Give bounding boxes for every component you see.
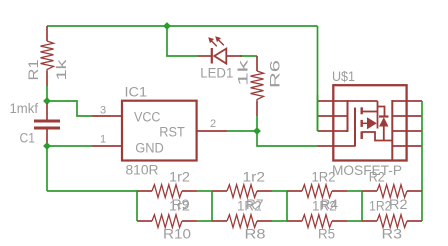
svg-text:R6: R6 bbox=[268, 60, 283, 88]
wire cell3-cell4 vertical bbox=[361, 191, 363, 221]
svg-text:U$1: U$1 bbox=[332, 69, 355, 84]
resistor R5 bbox=[287, 215, 347, 228]
U$1 channel segments bbox=[361, 107, 363, 114]
resistor R6 bbox=[251, 56, 264, 116]
wire R6 bottom to node C bbox=[256, 116, 258, 131]
resistor R2 bbox=[362, 185, 422, 198]
svg-text:MOSFET-P: MOSFET-P bbox=[332, 163, 402, 178]
svg-text:810R: 810R bbox=[126, 163, 159, 178]
U$1 substrate line with arrow bbox=[362, 122, 368, 124]
LED LED1 bbox=[198, 36, 243, 63]
svg-text:1r2: 1r2 bbox=[169, 169, 190, 184]
svg-text:1: 1 bbox=[100, 134, 106, 146]
svg-text:GND: GND bbox=[135, 140, 164, 155]
wire cell1-cell2 vertical bbox=[211, 191, 213, 221]
svg-text:R9: R9 bbox=[172, 197, 190, 212]
wire node B to IC1 pin 1 bbox=[47, 145, 92, 147]
U$1 right pin D2 bbox=[392, 115, 422, 117]
MOSFET U$1 bbox=[318, 85, 423, 160]
pin 1 of IC1 bbox=[92, 145, 122, 147]
U$1 gate bar bbox=[354, 108, 356, 147]
U$1 left pin row 1 (source, extends to inner vertical) bbox=[318, 100, 378, 102]
U$1 left pin S3 bbox=[318, 130, 348, 132]
svg-text:1k: 1k bbox=[54, 59, 69, 80]
wire node C to MOSFET gate bbox=[257, 131, 318, 146]
svg-text:R1: R1 bbox=[26, 60, 41, 81]
resistor R1 bbox=[41, 26, 54, 86]
wire gap top row 1 bbox=[197, 190, 212, 192]
wire gap bottom row 3 bbox=[347, 220, 362, 222]
svg-text:VCC: VCC bbox=[134, 110, 161, 125]
U$1 source contact stub bbox=[362, 111, 378, 113]
wire gap bottom row 2 bbox=[272, 220, 287, 222]
svg-text:2: 2 bbox=[210, 118, 216, 130]
svg-text:3: 3 bbox=[100, 105, 106, 117]
junction node C (RST net) bbox=[253, 127, 261, 135]
wire LED cathode to R6 top bbox=[240, 55, 257, 57]
U$1 right pin D1 bbox=[392, 100, 422, 102]
U$1 left tie bar bbox=[347, 100, 349, 132]
junction node A (VCC node) bbox=[43, 97, 51, 105]
wire LED drop from top rail bbox=[167, 26, 198, 56]
pin 2 of IC1 bbox=[197, 130, 227, 132]
wire left drop to bottom rail bbox=[46, 146, 48, 191]
U$1 body diode bottom lead bbox=[383, 127, 385, 141]
LED arrow 2 bbox=[218, 39, 224, 45]
svg-text:1R2: 1R2 bbox=[312, 169, 336, 184]
U$1 left pin S2 bbox=[318, 115, 348, 117]
wire top rail bbox=[47, 25, 318, 27]
capacitor C1 bbox=[34, 103, 60, 143]
wire R1 to node A bbox=[46, 86, 48, 101]
wire gap top row 2 bbox=[272, 190, 287, 192]
resistor R4 bbox=[287, 185, 347, 198]
svg-text:1mkf: 1mkf bbox=[10, 101, 39, 116]
svg-text:R2: R2 bbox=[369, 169, 385, 184]
U$1 body diode cathode bar bbox=[379, 115, 389, 117]
wire top-right vertical drop to U$1 left pins bbox=[317, 26, 319, 131]
wire IC1 pin2 to node C bbox=[227, 130, 257, 132]
U$1 drain bottom path bbox=[362, 132, 393, 141]
svg-text:1k: 1k bbox=[235, 60, 250, 86]
svg-text:R8: R8 bbox=[245, 226, 266, 241]
LED arrow 1 bbox=[211, 40, 217, 46]
U$1 box bbox=[333, 85, 406, 160]
wire cell1 left vertical bbox=[136, 191, 138, 221]
resistor R10 bbox=[137, 215, 197, 228]
svg-text:R2: R2 bbox=[389, 197, 408, 212]
wire gap top row 3 bbox=[347, 190, 362, 192]
wire node A to IC1 pin 3 bbox=[47, 101, 92, 116]
pin 3 of IC1 bbox=[92, 115, 122, 117]
svg-text:R7: R7 bbox=[246, 197, 264, 212]
U$1 right pin D3 bbox=[392, 130, 422, 132]
U$1 right pin D4 bbox=[392, 145, 422, 147]
resistor R7 bbox=[212, 185, 272, 198]
svg-text:RST: RST bbox=[159, 124, 185, 139]
svg-text:R10: R10 bbox=[163, 226, 191, 241]
U$1 inner source vertical bbox=[377, 101, 379, 129]
svg-text:R5: R5 bbox=[318, 226, 335, 241]
U$1 right tie bar bbox=[391, 100, 393, 160]
IC U1 IC1 box bbox=[122, 101, 197, 161]
U$1 gate pin bbox=[318, 145, 356, 147]
resistor R9 bbox=[137, 185, 197, 198]
svg-text:R4: R4 bbox=[321, 197, 339, 212]
junction on top rail bbox=[163, 22, 171, 30]
resistor R8 bbox=[212, 215, 272, 228]
wire right rail bbox=[421, 101, 423, 221]
wire cell2-cell3 vertical bbox=[286, 191, 288, 221]
U$1 body diode top lead bbox=[378, 107, 385, 117]
svg-text:R3: R3 bbox=[382, 226, 403, 241]
wire gap bottom row 1 bbox=[197, 220, 212, 222]
junction node B (GND node) bbox=[43, 142, 51, 150]
svg-text:IC1: IC1 bbox=[125, 85, 148, 100]
U$1 body diode triangle bbox=[379, 117, 389, 126]
svg-text:C1: C1 bbox=[20, 131, 36, 146]
resistor R3 bbox=[362, 215, 422, 228]
wire bottom-left rail bbox=[47, 190, 137, 192]
svg-text:LED1: LED1 bbox=[200, 65, 233, 80]
wire top-right drop overlay bbox=[317, 95, 319, 131]
svg-text:1r2: 1r2 bbox=[243, 169, 266, 184]
